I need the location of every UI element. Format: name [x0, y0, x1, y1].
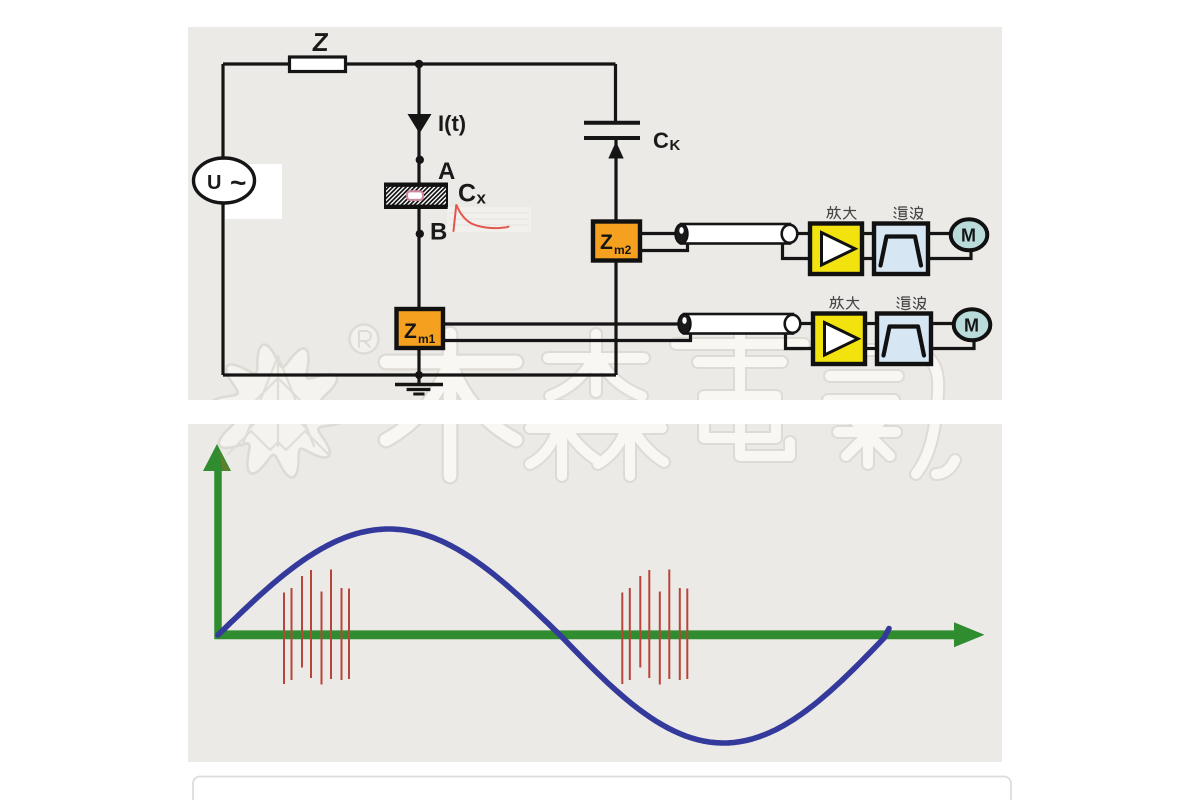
watermark char QI: [828, 350, 955, 474]
wire filter1 bottom return: [928, 251, 971, 259]
y-axis: [214, 470, 222, 639]
wire Zm2 to cable (top): [640, 232, 675, 235]
svg-text:I(t): I(t): [438, 111, 466, 136]
svg-text:m2: m2: [614, 243, 632, 257]
wire amp1 to filter1 (bottom): [862, 257, 874, 260]
svg-text:A: A: [438, 158, 455, 185]
sine wave: [218, 529, 889, 743]
wire amp2 to filter2 (top): [865, 322, 877, 325]
watermark char MU: [386, 334, 516, 476]
meter M1: [951, 219, 988, 250]
svg-text:Z: Z: [600, 231, 613, 254]
impedance Zm2: [593, 222, 640, 261]
node junction bottom: [415, 371, 423, 379]
svg-text:B: B: [430, 219, 447, 246]
y-axis arrowhead: [203, 444, 231, 471]
svg-text:M: M: [961, 226, 976, 246]
node A: [416, 156, 424, 164]
void in Cx: [407, 191, 423, 200]
x-axis arrowhead: [954, 622, 985, 647]
capacitor CK: [584, 123, 640, 138]
wire cable shield to amp 2 (bottom): [786, 334, 814, 349]
wire Zm2 to cable (bottom): [640, 244, 688, 251]
wire right vertical upper: [614, 64, 617, 121]
red discharge pulse: [454, 205, 509, 232]
svg-text:~: ~: [230, 167, 246, 198]
filter 1: [874, 224, 928, 275]
svg-text:Z: Z: [311, 27, 330, 57]
watermark char SEN: [530, 334, 664, 476]
svg-text:U: U: [207, 172, 221, 194]
wire top horizontal: [223, 62, 616, 65]
label lvbo 2: [897, 297, 926, 310]
capacitor Cx hatched box: [385, 184, 447, 209]
PD pulses cluster 1: [284, 570, 349, 685]
svg-text:m1: m1: [418, 332, 436, 346]
wire filter2 to meter2: [931, 322, 954, 325]
watermark logo blob: [210, 345, 345, 478]
resistor Z: [290, 57, 346, 72]
top gray panel: [188, 27, 1002, 400]
wire Zm1 to cable (top): [443, 322, 679, 325]
node B: [416, 230, 424, 238]
wire center vertical: [417, 64, 420, 375]
watermark char DIAN: [676, 334, 804, 456]
wire cable to amp 2: [800, 322, 813, 325]
arrow I(t): [408, 114, 432, 134]
white patch behind source: [225, 164, 282, 219]
node junction top: [415, 60, 424, 69]
coax cable 2: [678, 314, 800, 334]
x-axis: [215, 630, 956, 639]
svg-text:K: K: [670, 137, 681, 154]
watermark (R) mark: [350, 325, 379, 354]
svg-text:x: x: [477, 189, 487, 208]
wire left vertical: [221, 64, 224, 375]
wire filter1 to meter1: [928, 232, 951, 235]
wire amp2 to filter2 (bottom): [865, 347, 877, 350]
wire bottom horizontal: [223, 373, 616, 376]
WATERMARK: [210, 325, 955, 478]
svg-text:M: M: [964, 316, 979, 336]
svg-text:Z: Z: [404, 320, 417, 343]
svg-text:C: C: [653, 128, 669, 153]
y-axis arrowhead shadow: [219, 449, 230, 471]
amplifier 1: [810, 224, 862, 275]
label lvbo 1: [894, 207, 923, 220]
watermark logo tree: [228, 356, 328, 454]
CIRCUIT: [223, 64, 616, 375]
bottom card edge: [193, 777, 1011, 800]
bottom gray panel: [188, 424, 1002, 762]
wire right vertical lower: [614, 140, 617, 375]
PD pulses cluster 2: [622, 570, 687, 685]
svg-text:C: C: [458, 180, 476, 208]
meter M2: [954, 309, 991, 340]
filter 2: [877, 314, 931, 365]
wire amp1 to filter1 (top): [862, 232, 874, 235]
wire cable to amp 1: [797, 232, 810, 235]
label fangda 2: [830, 297, 859, 310]
faded oscillogram stripes: [447, 207, 531, 232]
impedance Zm1: [397, 309, 444, 348]
label fangda 1: [827, 207, 856, 220]
amplifier 2: [813, 314, 865, 365]
source U~: [194, 158, 255, 203]
wire Zm1 to cable (bottom): [443, 334, 691, 341]
ground: [395, 375, 443, 394]
wire filter2 bottom return: [931, 341, 974, 349]
arrow up toward CK: [608, 142, 623, 159]
wire cable shield to amp 1 (bottom): [783, 244, 811, 259]
coax cable 1: [675, 224, 797, 244]
